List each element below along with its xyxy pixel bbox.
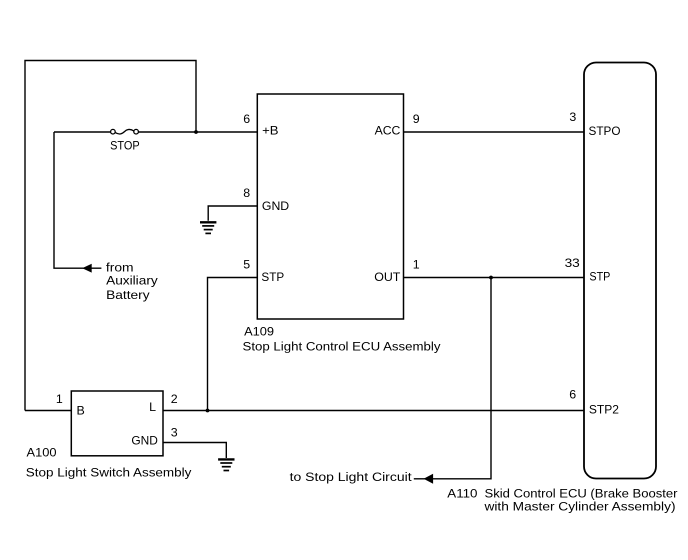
svg-text:3: 3 bbox=[171, 425, 178, 439]
svg-text:to Stop Light Circuit: to Stop Light Circuit bbox=[290, 470, 413, 484]
wire STP pin 5 to switch L node bbox=[208, 278, 258, 411]
svg-text:with Master Cylinder Assembly): with Master Cylinder Assembly) bbox=[483, 500, 675, 514]
svg-text:OUT: OUT bbox=[374, 270, 401, 284]
fuse STOP right terminal bbox=[134, 129, 139, 134]
svg-text:STP: STP bbox=[589, 270, 610, 284]
fuse STOP left terminal bbox=[111, 129, 116, 134]
svg-text:STOP: STOP bbox=[110, 138, 140, 152]
svg-text:STP2: STP2 bbox=[589, 402, 619, 416]
svg-text:5: 5 bbox=[243, 258, 250, 272]
svg-text:Skid Control ECU (Brake Booste: Skid Control ECU (Brake Booster bbox=[485, 486, 678, 500]
op-amp U1: ECU box A109 bbox=[257, 94, 403, 319]
wire to stop light circuit bbox=[414, 278, 491, 479]
svg-text:6: 6 bbox=[243, 112, 250, 126]
wire switch GND pin 3 bbox=[164, 443, 227, 459]
wire battery loop to switch pin 1 bbox=[25, 61, 196, 411]
ground G1 bbox=[200, 222, 216, 233]
svg-text:from: from bbox=[106, 260, 134, 274]
wire fuse to +B pin 6 bbox=[138, 131, 257, 133]
svg-text:GND: GND bbox=[131, 434, 158, 448]
svg-text:9: 9 bbox=[413, 112, 420, 126]
svg-text:ACC: ACC bbox=[375, 124, 401, 138]
svg-text:A100: A100 bbox=[27, 445, 57, 459]
junction fuse wire / loop bbox=[194, 130, 198, 134]
svg-text:6: 6 bbox=[569, 387, 576, 401]
wire GND pin 8 bbox=[208, 206, 257, 221]
svg-text:A109: A109 bbox=[244, 324, 274, 338]
fuse STOP element bbox=[115, 129, 134, 134]
svg-text:3: 3 bbox=[569, 110, 576, 124]
svg-text:GND: GND bbox=[262, 199, 289, 213]
wire switch pin 1 bbox=[25, 410, 72, 412]
svg-text:B: B bbox=[77, 404, 85, 418]
ground G2 bbox=[218, 459, 234, 470]
arrow to stop light circuit bbox=[424, 474, 433, 483]
wire fuse feed left segment bbox=[54, 131, 111, 133]
svg-text:A110: A110 bbox=[447, 486, 477, 500]
svg-text:Battery: Battery bbox=[106, 288, 150, 302]
switch A100 box bbox=[71, 391, 163, 456]
arrow from auxiliary battery bbox=[83, 264, 91, 272]
wire switch L pin 2 to STP2 pin 6 bbox=[164, 410, 585, 412]
svg-text:Stop Light Control ECU Assembl: Stop Light Control ECU Assembly bbox=[243, 340, 442, 354]
svg-text:Auxiliary: Auxiliary bbox=[106, 274, 158, 288]
svg-text:STP: STP bbox=[261, 270, 284, 284]
svg-text:Stop Light Switch Assembly: Stop Light Switch Assembly bbox=[26, 465, 192, 479]
svg-text:8: 8 bbox=[243, 186, 250, 200]
svg-text:33: 33 bbox=[565, 256, 580, 270]
svg-text:+B: +B bbox=[262, 124, 278, 138]
svg-text:STPO: STPO bbox=[589, 124, 621, 138]
svg-text:L: L bbox=[149, 400, 156, 414]
junction STP branch / L wire bbox=[206, 409, 210, 413]
svg-text:2: 2 bbox=[171, 392, 178, 406]
wire OUT pin 1 to STP pin 33 bbox=[404, 277, 585, 279]
wire ACC pin 9 to STPO pin 3 bbox=[404, 131, 585, 133]
junction OUT wire / stop light branch bbox=[489, 276, 493, 280]
svg-text:1: 1 bbox=[56, 392, 63, 406]
wire from auxiliary battery bbox=[54, 132, 101, 268]
svg-text:1: 1 bbox=[413, 258, 420, 272]
connector A110 skid control ECU bbox=[584, 63, 656, 479]
